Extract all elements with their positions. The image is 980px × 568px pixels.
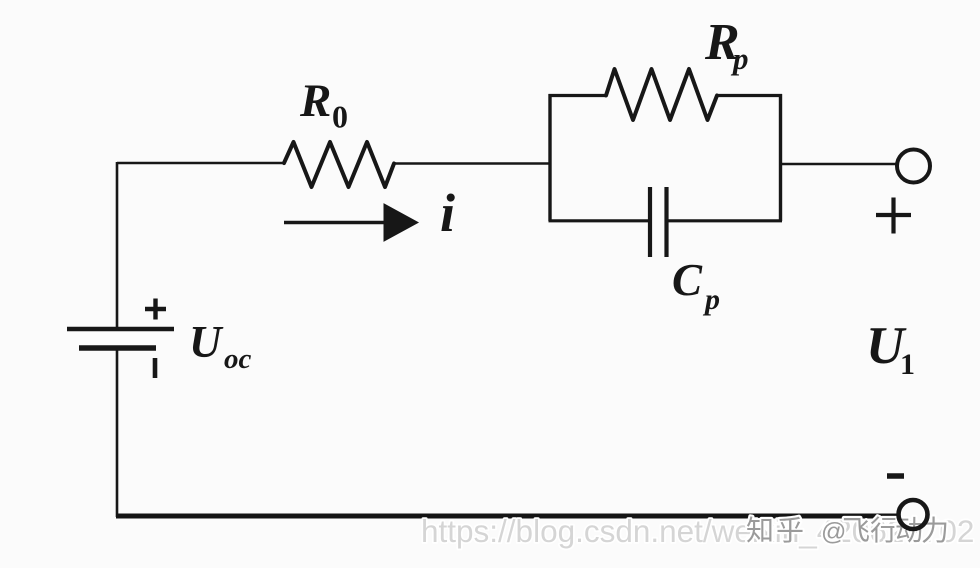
svg-text:0: 0 xyxy=(332,99,348,135)
svg-text:oc: oc xyxy=(224,343,252,375)
svg-text:1: 1 xyxy=(900,348,915,381)
watermark zhihu @feixingdongli xyxy=(746,515,949,546)
svg-text:U: U xyxy=(189,317,224,367)
resistor Rp zigzag xyxy=(606,69,717,120)
svg-text:飞: 飞 xyxy=(842,515,870,546)
RC box right side xyxy=(779,94,782,221)
capacitor Cp left plate xyxy=(648,187,652,257)
wire left vertical lower (battery - plate down to bottom node) xyxy=(116,349,119,517)
battery minus tick xyxy=(153,358,158,378)
svg-text:R: R xyxy=(299,75,331,127)
RC box bottom wire left segment xyxy=(549,219,651,222)
wire R0 to RC box xyxy=(394,162,551,165)
capacitor Cp right plate xyxy=(664,187,668,257)
svg-text:知: 知 xyxy=(746,515,774,546)
battery Uoc long plate (+) xyxy=(67,327,174,332)
svg-text:行: 行 xyxy=(870,515,898,546)
RC box bottom wire right segment xyxy=(667,219,782,222)
battery Uoc short plate (-) xyxy=(79,345,156,350)
wire RC box to positive terminal xyxy=(781,163,897,166)
wire top-left horizontal (battery top node to R0) xyxy=(117,162,285,165)
current arrow shaft xyxy=(284,221,386,224)
wire left vertical upper (top node down to battery + plate) xyxy=(116,162,119,328)
svg-text:i: i xyxy=(440,183,455,243)
positive output terminal circle xyxy=(897,150,930,183)
RC box top wire right segment xyxy=(717,94,782,97)
wire bottom horizontal (bottom rail) xyxy=(116,514,898,519)
negative output terminal circle xyxy=(899,500,928,529)
svg-text:p: p xyxy=(730,41,749,76)
RC box left side xyxy=(548,94,551,221)
RC box top wire left segment xyxy=(549,94,607,97)
svg-text:C: C xyxy=(672,255,703,305)
battery plus sign xyxy=(145,299,166,320)
output minus sign xyxy=(887,473,904,479)
svg-text:p: p xyxy=(702,283,720,316)
resistor R0 zigzag xyxy=(284,142,394,187)
current arrow head xyxy=(384,204,418,241)
output plus sign xyxy=(876,198,911,234)
svg-text:乎: 乎 xyxy=(776,515,804,546)
